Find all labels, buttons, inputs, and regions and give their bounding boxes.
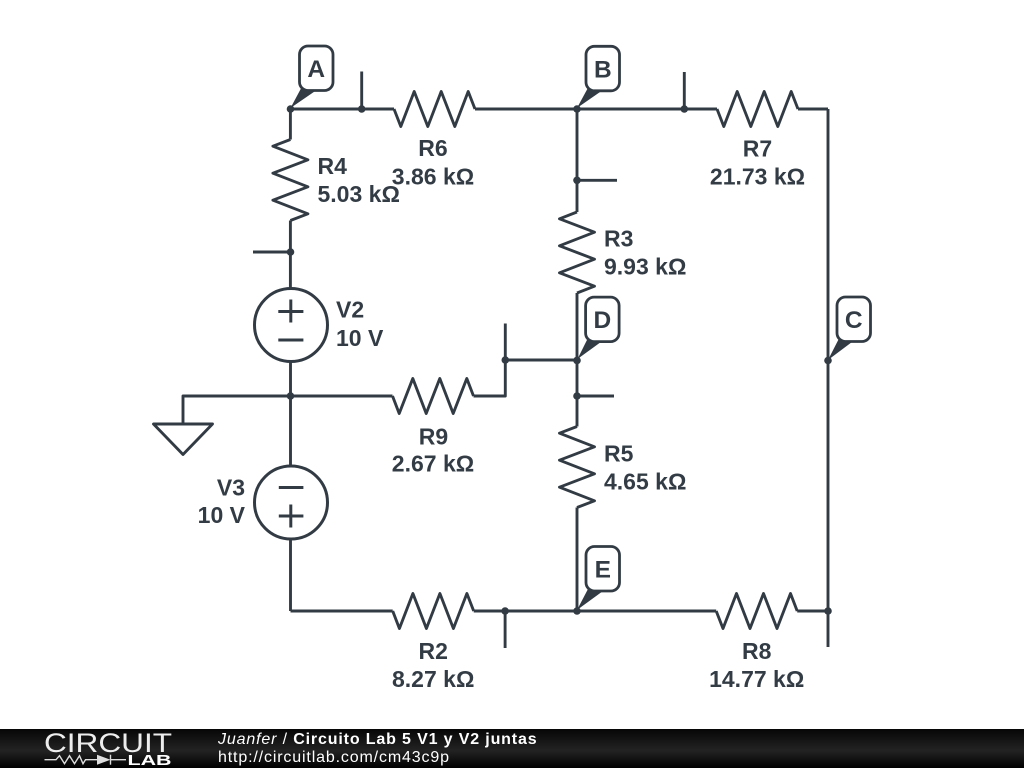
resistor R4 (273, 140, 308, 221)
svg-text:E: E (595, 557, 611, 584)
node E flag (577, 547, 620, 611)
junction dot below D (573, 392, 581, 400)
wire V3 to bottom (289, 539, 292, 611)
junction dot R9 corner (502, 356, 510, 364)
voltage source V2 (255, 289, 328, 362)
svg-text:3.86 kΩ: 3.86 kΩ (392, 164, 474, 190)
svg-text:R3: R3 (604, 226, 633, 252)
wire right column (827, 109, 830, 647)
junction dot R4 bottom (287, 248, 295, 256)
svg-text:10 V: 10 V (336, 325, 384, 351)
svg-text:B: B (594, 56, 612, 83)
resistor R2 (393, 594, 474, 629)
svg-text:R4: R4 (318, 153, 348, 179)
wire R8 to right column (797, 610, 828, 613)
svg-text:LAB: LAB (128, 753, 172, 768)
junction dot stub A (358, 105, 366, 113)
junction node E dot (573, 607, 581, 615)
stub above wire near A (360, 72, 363, 110)
svg-text:14.77 kΩ: 14.77 kΩ (709, 666, 804, 692)
stub left of R4 bottom (253, 251, 291, 254)
svg-text:21.73 kΩ: 21.73 kΩ (710, 164, 805, 190)
junction dot below B (573, 177, 581, 185)
svg-text:4.65 kΩ: 4.65 kΩ (604, 469, 686, 495)
wire top-right corner (798, 108, 828, 111)
svg-text:R6: R6 (418, 135, 447, 161)
junction node D dot (573, 357, 581, 365)
svg-text:A: A (307, 56, 325, 83)
wire top R6 to R7 (475, 108, 717, 111)
junction node B dot (573, 105, 581, 113)
wire R3 to R5 (576, 293, 579, 427)
resistor R7 (717, 92, 798, 127)
resistor R5 (560, 427, 595, 508)
wire ground row to V3 (289, 396, 292, 466)
node A flag (291, 46, 334, 108)
svg-text:C: C (845, 307, 863, 334)
wire R2 to E (474, 610, 717, 613)
stub above R9 corner (504, 324, 507, 361)
svg-text:10 V: 10 V (198, 502, 246, 528)
logo resistor-diode line (45, 755, 127, 765)
svg-text:2.67 kΩ: 2.67 kΩ (392, 451, 474, 477)
stub right below B (577, 179, 617, 182)
wire B down to R3 (576, 109, 579, 212)
resistor R3 (560, 212, 595, 293)
junction node C dot (824, 357, 832, 365)
svg-text:http://circuitlab.com/cm43c9p: http://circuitlab.com/cm43c9p (218, 749, 450, 766)
stub right below D (577, 395, 614, 398)
node C flag (828, 297, 871, 360)
stub above wire near B (683, 72, 686, 109)
junction dot stub B (681, 105, 689, 113)
wire R9 to node D (474, 360, 578, 396)
svg-text:V3: V3 (217, 475, 245, 501)
wire R9 branch (291, 395, 393, 398)
junction dot R8 right (824, 607, 832, 615)
svg-text:9.93 kΩ: 9.93 kΩ (604, 254, 686, 280)
resistor R6 (394, 92, 475, 127)
resistor R8 (716, 594, 797, 629)
wire R5 to E (576, 508, 579, 612)
footer bar (0, 729, 1024, 768)
resistor R9 (393, 379, 474, 414)
svg-text:R7: R7 (743, 136, 772, 162)
voltage source V3 (255, 466, 328, 539)
svg-text:5.03 kΩ: 5.03 kΩ (318, 181, 400, 207)
wire bottom left to R2 (291, 610, 393, 613)
wire R4 to V2 (289, 221, 292, 289)
wire top A to R6 (291, 108, 395, 111)
svg-text:R5: R5 (604, 441, 634, 467)
svg-text:Juanfer / Circuito Lab 5 V1 y: Juanfer / Circuito Lab 5 V1 y V2 juntas (217, 731, 538, 748)
node D flag (578, 297, 620, 359)
svg-text:R8: R8 (742, 638, 772, 664)
junction node A dot (287, 105, 295, 113)
svg-text:D: D (594, 307, 612, 334)
svg-text:V2: V2 (336, 297, 364, 323)
ground (183, 396, 291, 424)
svg-text:R2: R2 (418, 638, 447, 664)
junction dot bottom stub (501, 607, 509, 615)
svg-text:R9: R9 (419, 424, 448, 450)
wire A down to R4 (289, 109, 292, 140)
stub below bottom wire (504, 611, 507, 648)
svg-text:8.27 kΩ: 8.27 kΩ (392, 666, 474, 692)
node B flag (577, 46, 620, 108)
junction dot ground row (287, 392, 295, 400)
wire V2 to ground row (289, 362, 292, 397)
